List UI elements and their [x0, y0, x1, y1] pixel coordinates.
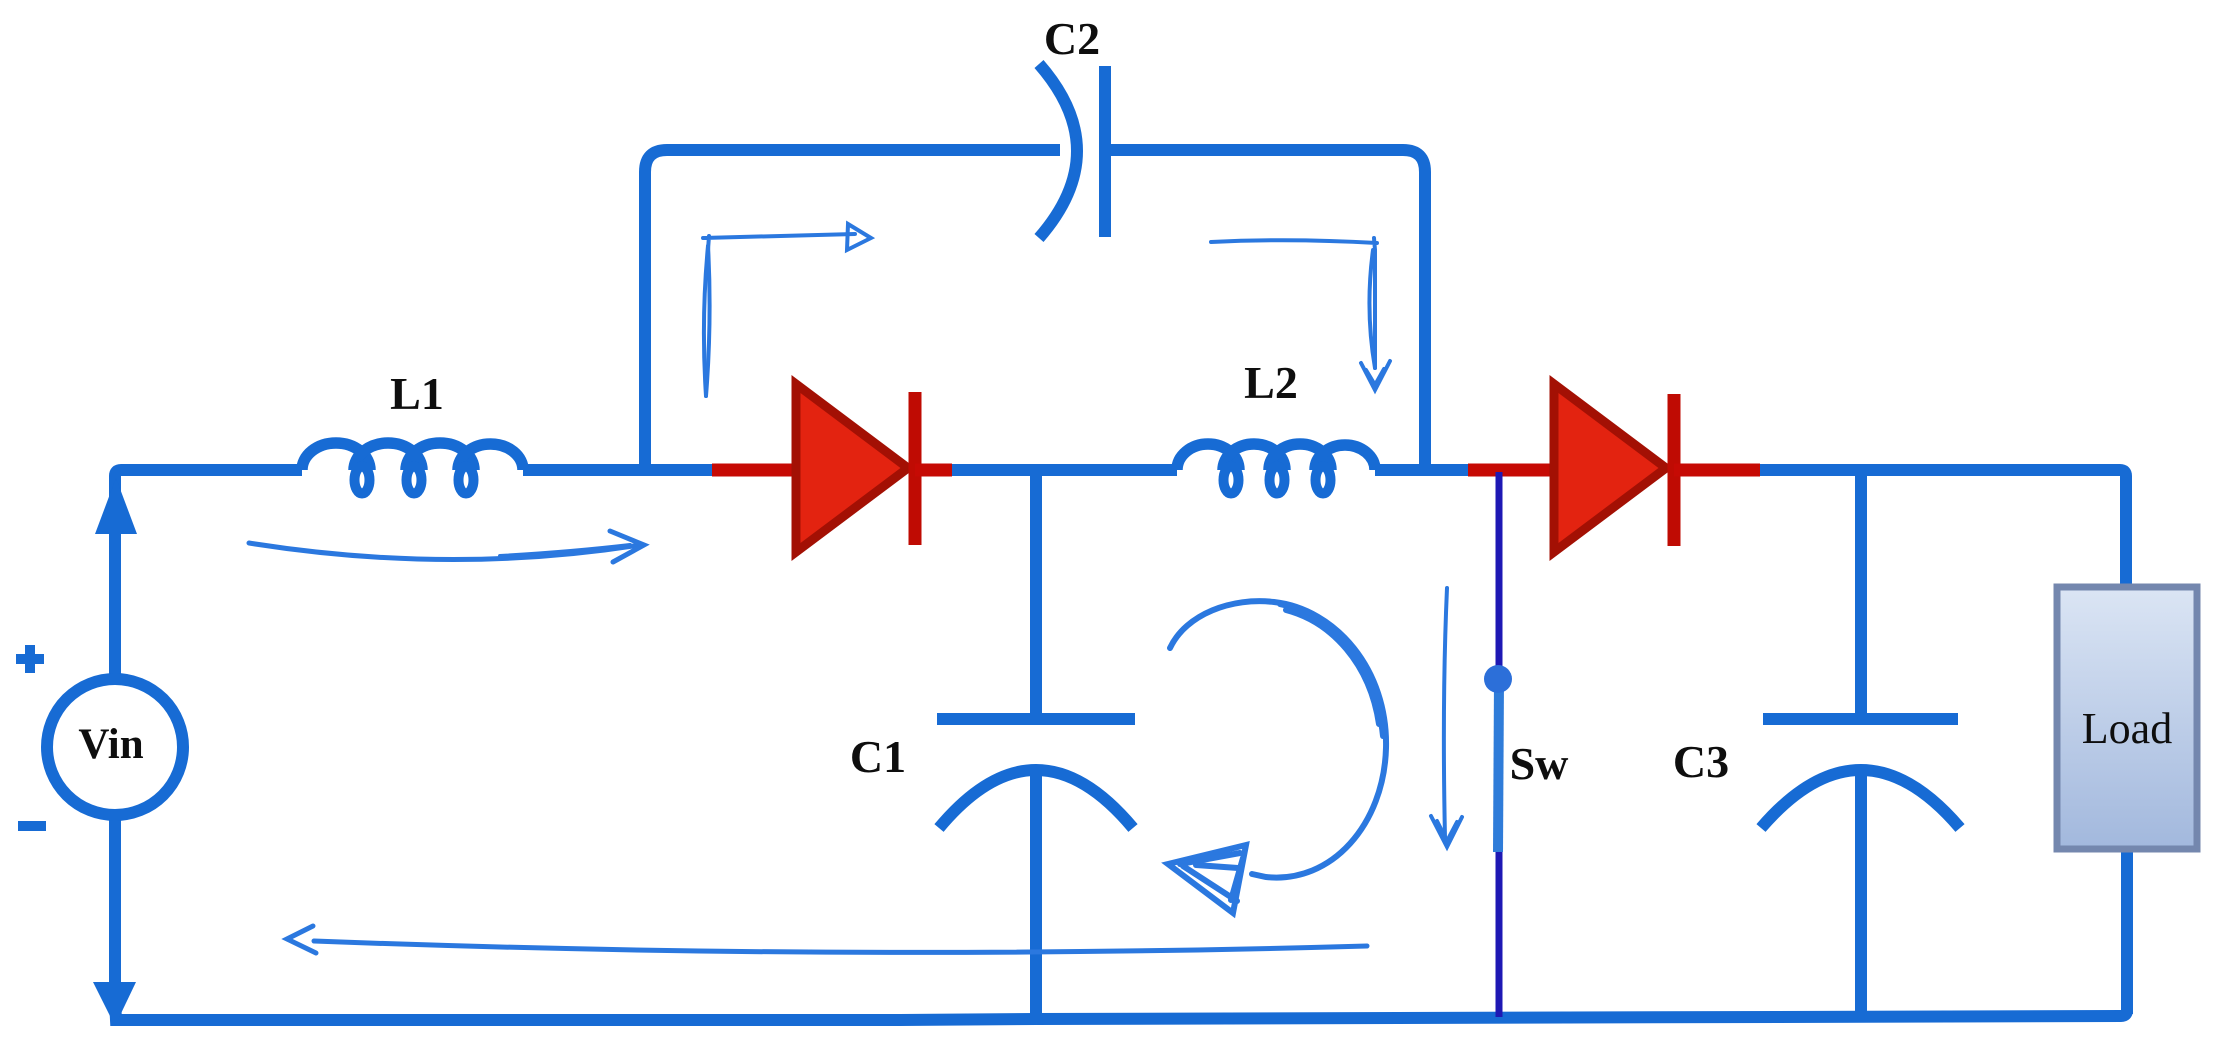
svg-text:C1: C1 — [850, 731, 906, 782]
arrowhead up on left rail — [95, 478, 137, 534]
hand arrow under L1 — [249, 531, 644, 562]
diode D1 — [712, 384, 952, 552]
arrowhead down on left rail — [93, 982, 136, 1026]
hand arrow up-right at C2 left — [703, 224, 871, 396]
wire: left rail top segment — [115, 470, 302, 677]
svg-text:Vin: Vin — [78, 721, 143, 768]
switch Sw light segment — [1498, 680, 1499, 852]
svg-text:L1: L1 — [390, 368, 444, 419]
inductor L1 — [302, 443, 523, 494]
wire: top rail segment D1 to L2 — [952, 464, 1177, 476]
capacitor C3 — [1761, 470, 1960, 1020]
svg-text:Sw: Sw — [1510, 738, 1569, 789]
svg-text:C2: C2 — [1044, 13, 1100, 64]
svg-text:Load: Load — [2082, 704, 2172, 753]
capacitor C1 — [937, 470, 1135, 1020]
wire: top rail segment L2 to D2 — [1375, 464, 1468, 476]
switch Sw node dot — [1484, 665, 1512, 693]
minus sign — [18, 821, 46, 831]
hand arrow circular loop — [1168, 601, 1386, 913]
wire: bottom rail right part — [1036, 851, 2127, 1019]
source Vin circle — [47, 679, 183, 815]
load box — [2057, 587, 2197, 849]
wire: C2 branch left vertical — [645, 150, 1060, 470]
capacitor C2 — [1039, 64, 1105, 238]
inductor L2 — [1177, 444, 1375, 494]
wire: top rail segment L1 to D1 — [523, 464, 716, 476]
svg-text:L2: L2 — [1244, 357, 1298, 408]
hand arrow right-down at C2 right — [1211, 238, 1390, 390]
diode D2 — [1468, 384, 1760, 552]
wire: left rail bottom segment — [115, 817, 1036, 1020]
wire: C2 branch right vertical — [1105, 150, 1425, 470]
hand arrow down at Sw — [1431, 588, 1462, 847]
wire: top rail segment D2 to load corner — [1760, 470, 2126, 588]
hand arrow bottom left-pointing — [287, 926, 1367, 953]
svg-text:C3: C3 — [1673, 736, 1729, 787]
plus sign — [16, 645, 44, 673]
wire: load bottom lead — [2121, 849, 2133, 1014]
switch Sw wire (navy) — [1496, 472, 1503, 1017]
